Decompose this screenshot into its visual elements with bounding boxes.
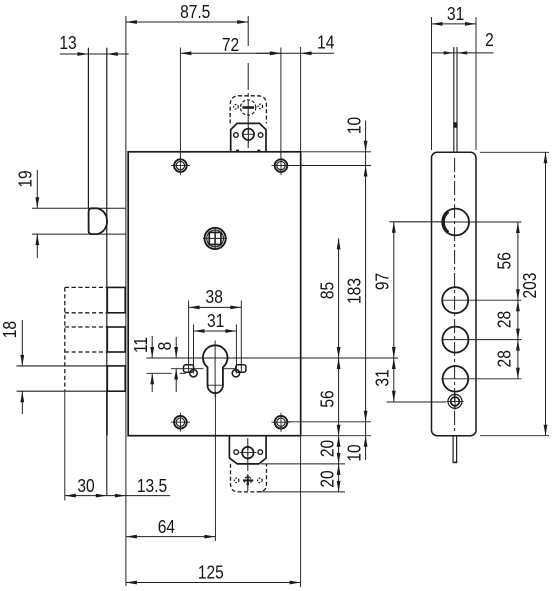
svg-text:10: 10 xyxy=(344,444,365,461)
bottom bracket centerline xyxy=(247,438,249,491)
deadbolt pin2 body xyxy=(107,327,125,352)
dim 13.5 xyxy=(107,495,170,497)
top bracket center hole xyxy=(243,129,254,140)
bottom bracket right hole xyxy=(258,450,263,455)
bottom dashed left hole xyxy=(234,478,239,483)
dim 203 xyxy=(545,152,547,435)
svg-text:56: 56 xyxy=(317,390,338,407)
deadbolt pin1 top (dashed) xyxy=(65,286,108,288)
faceplate centerline xyxy=(454,158,456,431)
dim 28 upper xyxy=(516,300,520,311)
svg-text:31: 31 xyxy=(372,369,393,386)
svg-text:85: 85 xyxy=(317,282,338,299)
latch slot upper line xyxy=(32,207,126,209)
top bracket right hole xyxy=(258,133,263,138)
deadbolt pin1 bottom (dashed) xyxy=(65,312,108,314)
deadbolt pin2 top (dashed) xyxy=(65,326,108,328)
deadbolt pin1 body xyxy=(107,287,125,312)
svg-text:183: 183 xyxy=(344,278,365,304)
bottom dashed right hole xyxy=(258,478,263,483)
bottom dashed bracket (alternate position) xyxy=(231,464,267,492)
dome slot circle (dashed) xyxy=(240,100,255,115)
bottom-left screw hole xyxy=(174,416,187,429)
latch slot lower line xyxy=(32,233,126,235)
deadbolt pin3 body xyxy=(107,366,125,391)
svg-text:11: 11 xyxy=(131,337,152,353)
top control rod xyxy=(453,47,455,152)
svg-text:20: 20 xyxy=(317,440,338,457)
deadbolt thrown tip line (dashed) xyxy=(64,287,66,391)
bottom follower bracket xyxy=(229,436,266,464)
svg-text:97: 97 xyxy=(372,273,393,290)
dim 8 xyxy=(175,337,177,358)
dim 72 xyxy=(180,52,281,54)
bottom bracket center hole xyxy=(242,447,254,459)
left fixing ear xyxy=(184,365,194,373)
dim 64 xyxy=(126,536,215,538)
dim 20 upper xyxy=(337,436,341,447)
latch opening xyxy=(442,209,469,236)
bolt opening 2 xyxy=(442,327,468,353)
top follower bracket xyxy=(231,123,266,151)
dim 10 bottom xyxy=(364,436,368,447)
svg-text:30: 30 xyxy=(77,476,94,497)
deadbolt pin3 bottom line / 18 extension xyxy=(17,390,108,392)
svg-text:18: 18 xyxy=(0,321,20,338)
svg-text:203: 203 xyxy=(520,273,541,299)
dim 183 xyxy=(364,166,368,177)
dim 30 xyxy=(64,392,66,501)
top-left screw hole xyxy=(174,159,187,172)
lock case body outline xyxy=(128,152,301,436)
right fixing ear xyxy=(236,365,246,373)
faceplate front line xyxy=(87,48,89,209)
faceplate rear line xyxy=(106,48,108,392)
dim 31 plate xyxy=(432,23,477,25)
latch center extension xyxy=(390,221,443,223)
cylinder centerline xyxy=(146,357,398,359)
bottom dashed center hole xyxy=(244,477,251,484)
dome right hole (dashed) xyxy=(258,104,263,109)
top bracket left hole xyxy=(234,133,239,138)
svg-text:38: 38 xyxy=(206,287,223,308)
svg-text:31: 31 xyxy=(447,4,464,25)
latch bolt xyxy=(89,208,108,234)
dim 19 xyxy=(36,170,38,208)
svg-text:125: 125 xyxy=(198,562,224,583)
svg-text:14: 14 xyxy=(317,32,334,53)
deadbolt pin2 bottom (dashed) xyxy=(65,351,108,353)
dim 97 xyxy=(393,222,395,402)
dim 18 xyxy=(21,320,23,366)
svg-text:19: 19 xyxy=(15,170,36,187)
dim 14 xyxy=(256,52,334,54)
svg-text:10: 10 xyxy=(344,117,365,134)
svg-text:8: 8 xyxy=(155,342,176,351)
svg-text:13: 13 xyxy=(59,33,76,54)
dim 85 xyxy=(338,238,340,492)
svg-text:72: 72 xyxy=(222,35,239,56)
dim 56 right xyxy=(517,222,519,379)
deadbolt pin3 top line / 18 extension xyxy=(17,365,108,367)
svg-text:64: 64 xyxy=(158,517,175,538)
dim 31 right xyxy=(392,358,396,369)
faceplate screw hole xyxy=(448,394,462,408)
cylinder profile xyxy=(203,345,228,393)
svg-text:87.5: 87.5 xyxy=(180,2,210,23)
svg-text:56: 56 xyxy=(494,252,515,269)
svg-text:31: 31 xyxy=(207,311,224,332)
svg-text:2: 2 xyxy=(485,30,494,51)
dim 2 xyxy=(432,52,494,54)
top dashed dome (alternate position) xyxy=(230,96,266,124)
dim 125 xyxy=(126,582,301,584)
dim 20 lower xyxy=(337,464,341,475)
dim 13 xyxy=(60,53,129,55)
mounting-face reference line xyxy=(125,16,127,586)
dim 56 bottom xyxy=(337,358,341,369)
spindle square hole xyxy=(205,228,226,249)
faceplate plate outline xyxy=(432,152,477,435)
svg-text:28: 28 xyxy=(494,350,515,367)
dim 28 lower xyxy=(516,340,520,351)
dim 87.5 xyxy=(126,21,248,23)
svg-text:13.5: 13.5 xyxy=(137,476,167,497)
top-right screw hole xyxy=(275,159,288,172)
dim 31 cylinder xyxy=(194,330,237,332)
svg-text:20: 20 xyxy=(317,470,338,487)
dim 10 top xyxy=(365,121,367,461)
bolt opening 3 xyxy=(443,366,469,392)
bottom control rod xyxy=(452,436,454,463)
dome left hole (dashed) xyxy=(234,105,239,110)
dim 38 xyxy=(189,306,242,308)
bottom bracket left hole xyxy=(234,450,239,455)
top bracket centerline xyxy=(247,16,249,46)
bolt opening 1 xyxy=(442,287,468,313)
bottom-right screw hole xyxy=(275,416,288,429)
dim 11 xyxy=(151,336,153,358)
svg-text:28: 28 xyxy=(494,311,515,328)
